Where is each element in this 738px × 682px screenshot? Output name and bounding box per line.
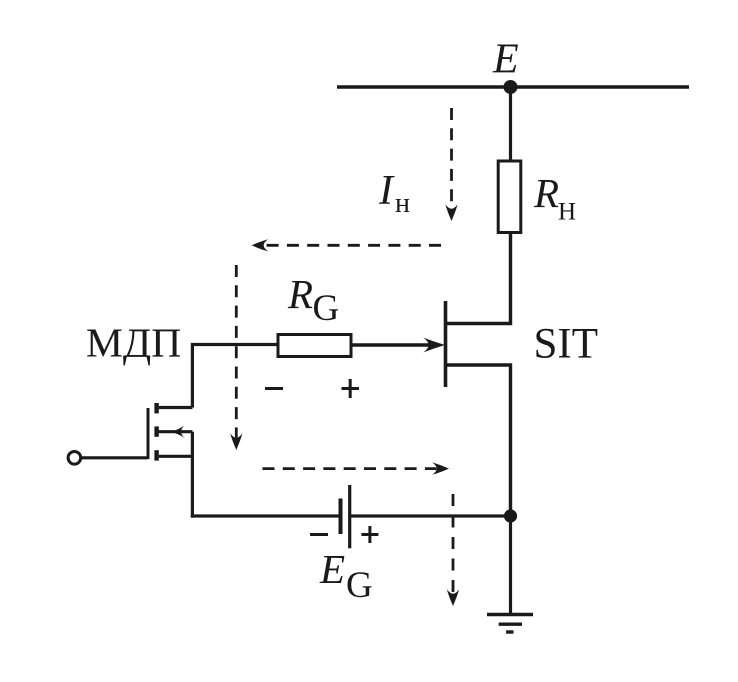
svg-text:R: R xyxy=(533,170,559,216)
svg-text:E: E xyxy=(319,546,345,592)
wire: battery to bottom node xyxy=(350,514,511,517)
wire: bottom rail left of battery xyxy=(191,514,341,517)
node: bottom junction dot xyxy=(504,509,517,522)
label EG xyxy=(319,546,373,606)
resistor RH xyxy=(498,161,521,233)
dashed current arrow: down to ground xyxy=(447,494,459,606)
wire: MDP source down to bottom rail xyxy=(191,432,194,518)
svg-text:G: G xyxy=(346,565,373,606)
wire: top power rail xyxy=(337,85,689,88)
ground xyxy=(487,615,533,633)
wire: RG to SIT gate with arrowhead xyxy=(351,338,445,353)
transistor МДП (MOSFET: gate line, channel bars, leads, body arrow) xyxy=(148,403,192,461)
svg-text:МДП: МДП xyxy=(86,320,181,366)
label minus (battery) xyxy=(310,533,328,536)
label RG xyxy=(287,271,339,329)
svg-text:н: н xyxy=(395,188,410,219)
svg-text:E: E xyxy=(492,37,519,83)
svg-text:G: G xyxy=(313,288,340,329)
wire: node to ground xyxy=(509,516,512,614)
dashed current arrow: down from rail (IH) xyxy=(445,108,457,221)
wire: RH bottom to SIT drain xyxy=(446,233,511,324)
label plus (RG gate bias) xyxy=(342,379,360,398)
label IH xyxy=(378,168,410,219)
terminal: input circle xyxy=(68,452,81,465)
wire: rail to RH top xyxy=(509,87,512,161)
wire: input terminal to MDP gate xyxy=(81,456,148,459)
label RH xyxy=(533,170,576,226)
wire: MDP drain to RG left xyxy=(192,345,278,408)
svg-text:SIT: SIT xyxy=(534,321,599,368)
transistor SIT (gate bar and source lead) xyxy=(446,301,511,516)
dashed current arrow: down left side xyxy=(230,265,242,450)
svg-text:Н: Н xyxy=(558,199,576,226)
svg-text:R: R xyxy=(287,271,313,317)
node: junction dot on rail at E xyxy=(504,80,518,94)
dashed current arrow: leftwards (above RG) xyxy=(252,239,442,251)
label plus (battery) xyxy=(361,526,378,543)
label minus (RG gate bias) xyxy=(265,387,283,390)
resistor RG xyxy=(278,335,351,357)
dashed current arrow: rightwards (above battery) xyxy=(263,463,449,475)
battery EG (plates) xyxy=(341,485,350,548)
svg-text:I: I xyxy=(378,168,395,214)
